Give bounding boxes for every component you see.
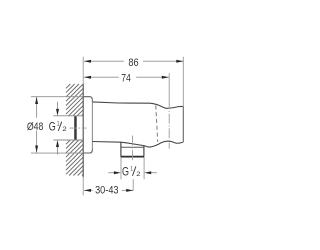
svg-text:G: G — [122, 165, 129, 179]
svg-text:G: G — [49, 120, 56, 134]
svg-text:30-43: 30-43 — [95, 185, 118, 197]
svg-text:Ø48: Ø48 — [27, 121, 44, 133]
svg-text:1: 1 — [57, 121, 60, 128]
svg-text:2: 2 — [136, 171, 141, 178]
svg-text:2: 2 — [62, 126, 67, 133]
svg-text:86: 86 — [128, 57, 138, 69]
svg-text:74: 74 — [121, 72, 131, 84]
svg-text:1: 1 — [130, 165, 133, 172]
